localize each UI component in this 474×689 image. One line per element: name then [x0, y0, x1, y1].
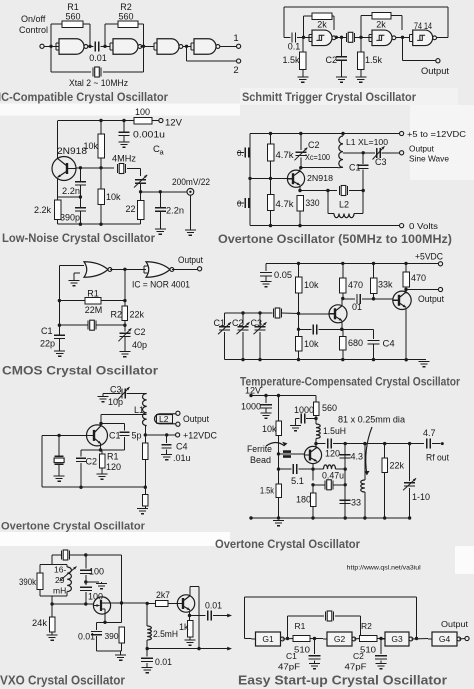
svg-text:0.47u: 0.47u — [322, 471, 344, 481]
svg-text:1k: 1k — [179, 622, 189, 632]
svg-text:Ferrite: Ferrite — [247, 444, 272, 454]
svg-text:R2: R2 — [110, 310, 122, 320]
svg-text:Output: Output — [421, 66, 450, 76]
svg-text:C2: C2 — [325, 55, 337, 65]
svg-text:R1: R1 — [107, 452, 119, 462]
svg-text:2.2n: 2.2n — [62, 186, 80, 196]
svg-text:29: 29 — [55, 575, 65, 585]
svg-text:C2: C2 — [308, 140, 320, 150]
svg-text:10k: 10k — [304, 339, 319, 349]
svg-text:L1: L1 — [134, 405, 144, 415]
svg-text:33k: 33k — [378, 280, 393, 290]
svg-text:4.3: 4.3 — [351, 452, 364, 462]
svg-text:VXO Crystal Oscillator: VXO Crystal Oscillator — [0, 674, 125, 688]
svg-text:330: 330 — [306, 198, 320, 208]
svg-text:47pF: 47pF — [278, 662, 300, 672]
svg-text:2: 2 — [233, 65, 238, 76]
svg-text:1-10: 1-10 — [412, 492, 430, 502]
svg-text:01: 01 — [352, 302, 362, 312]
svg-text:40p: 40p — [132, 340, 147, 350]
svg-text:mH: mH — [53, 586, 66, 596]
svg-text:5.1: 5.1 — [291, 476, 304, 486]
svg-text:16-: 16- — [54, 565, 66, 575]
svg-text:1000: 1000 — [241, 402, 261, 412]
svg-text:81 x 0.25mm dia: 81 x 0.25mm dia — [338, 415, 405, 425]
svg-text:120: 120 — [106, 462, 121, 472]
svg-text:4.7k: 4.7k — [276, 150, 295, 160]
svg-text:Output: Output — [178, 255, 203, 265]
svg-text:2.2n: 2.2n — [166, 206, 184, 216]
svg-text:G4: G4 — [439, 634, 451, 644]
svg-text:R2: R2 — [120, 2, 132, 12]
svg-text:Temperature-Compensated Crysta: Temperature-Compensated Crystal Oscillat… — [240, 377, 460, 389]
svg-text:0.: 0. — [237, 149, 244, 158]
svg-text:1.5uH: 1.5uH — [323, 426, 346, 436]
svg-text:390: 390 — [105, 631, 119, 641]
svg-text:4.7k: 4.7k — [276, 199, 295, 209]
svg-text:0.: 0. — [237, 200, 244, 209]
svg-text:0 Volts: 0 Volts — [409, 221, 438, 231]
svg-text:560: 560 — [322, 403, 337, 413]
svg-text:22k: 22k — [390, 461, 405, 471]
svg-text:4MHz: 4MHz — [112, 154, 136, 164]
svg-text:IC = NOR 4001: IC = NOR 4001 — [132, 280, 190, 290]
svg-text:Output: Output — [409, 144, 435, 154]
svg-text:Bead: Bead — [250, 455, 271, 465]
svg-text:R1: R1 — [295, 621, 306, 631]
svg-text:Control: Control — [19, 25, 48, 35]
svg-text:390p: 390p — [60, 213, 80, 223]
svg-text:100: 100 — [89, 567, 104, 577]
svg-text:Overtone Oscillator (50MHz to: Overtone Oscillator (50MHz to 100MHz) — [218, 232, 452, 246]
svg-text:R1: R1 — [67, 2, 79, 12]
svg-text:http://www.qsl.net/va3iul: http://www.qsl.net/va3iul — [347, 565, 421, 572]
svg-text:0.1: 0.1 — [288, 42, 301, 52]
svg-text:L1 XL=100: L1 XL=100 — [346, 137, 388, 147]
svg-text:180: 180 — [296, 495, 311, 505]
svg-text:10k: 10k — [304, 280, 319, 290]
svg-text:0.05: 0.05 — [274, 270, 292, 280]
svg-text:2N918: 2N918 — [57, 146, 87, 156]
svg-text:2k7: 2k7 — [156, 590, 170, 600]
svg-text:1.5k: 1.5k — [260, 486, 274, 496]
svg-text:G3: G3 — [391, 634, 403, 644]
svg-text:C2: C2 — [86, 457, 98, 467]
svg-text:L2: L2 — [159, 414, 169, 424]
svg-text:C2: C2 — [353, 651, 364, 661]
svg-text:C1: C1 — [109, 431, 121, 441]
svg-text:560: 560 — [118, 12, 133, 22]
svg-text:2N918: 2N918 — [307, 173, 333, 183]
svg-text:1.5k: 1.5k — [365, 55, 383, 65]
svg-text:Xc=100: Xc=100 — [305, 152, 330, 162]
svg-text:22: 22 — [125, 204, 135, 214]
svg-text:0.001u: 0.001u — [133, 130, 165, 140]
svg-text:1.5k: 1.5k — [282, 55, 300, 65]
svg-text:Overtone Crystal Oscillator: Overtone Crystal Oscillator — [215, 539, 361, 551]
svg-text:120: 120 — [325, 449, 340, 459]
svg-text:680: 680 — [348, 338, 363, 348]
svg-text:Overtone Crystal Oscillator: Overtone Crystal Oscillator — [1, 521, 146, 533]
svg-text:1000: 1000 — [294, 405, 314, 415]
svg-text:CMOS Crystal Oscillator: CMOS Crystal Oscillator — [2, 364, 158, 378]
svg-text:Output: Output — [183, 414, 209, 424]
svg-text:C3: C3 — [110, 385, 122, 395]
svg-text:470: 470 — [411, 273, 426, 283]
svg-text:2k: 2k — [317, 20, 327, 30]
svg-text:Output: Output — [441, 619, 469, 629]
svg-text:C1: C1 — [286, 651, 297, 661]
svg-text:12V: 12V — [245, 386, 261, 396]
svg-text:4.7: 4.7 — [423, 428, 436, 438]
svg-text:0.01: 0.01 — [155, 657, 172, 667]
svg-text:+12VDC: +12VDC — [183, 431, 217, 441]
svg-text:22p: 22p — [40, 339, 55, 349]
svg-text:33: 33 — [351, 498, 361, 508]
svg-text:0.01: 0.01 — [89, 53, 107, 63]
svg-text:470: 470 — [348, 280, 363, 290]
svg-text:24k: 24k — [32, 618, 48, 628]
svg-text:R2: R2 — [361, 621, 372, 631]
svg-text:R1: R1 — [87, 289, 99, 299]
svg-text:C1: C1 — [214, 318, 226, 328]
svg-text:Output: Output — [418, 294, 444, 304]
svg-text:12V: 12V — [165, 118, 183, 129]
svg-text:IC-Compatible Crystal Oscillat: IC-Compatible Crystal Oscillator — [0, 90, 168, 104]
svg-text:10p: 10p — [108, 397, 123, 407]
svg-text:On/off: On/off — [21, 14, 46, 24]
svg-text:C1: C1 — [349, 163, 361, 173]
svg-text:2.5mH: 2.5mH — [153, 629, 178, 639]
svg-text:5p: 5p — [132, 431, 142, 441]
svg-text:Rf out: Rf out — [426, 453, 449, 463]
svg-text:C1: C1 — [41, 326, 53, 336]
svg-text:2.2k: 2.2k — [34, 205, 52, 215]
svg-text:+5VDC: +5VDC — [415, 252, 443, 262]
svg-text:22M: 22M — [85, 305, 103, 315]
svg-text:C4: C4 — [176, 442, 188, 452]
svg-text:.01u: .01u — [173, 453, 191, 463]
svg-text:Schmitt Trigger Crystal Oscill: Schmitt Trigger Crystal Oscillator — [242, 90, 416, 104]
svg-text:Easy Start-up Crystal Oscillat: Easy Start-up Crystal Oscillator — [238, 674, 447, 688]
svg-text:2k: 2k — [376, 20, 386, 30]
svg-text:G2: G2 — [334, 634, 346, 644]
svg-text:G1: G1 — [262, 634, 274, 644]
svg-text:200mV/22: 200mV/22 — [172, 177, 210, 187]
svg-text:+5 to =12VDC: +5 to =12VDC — [407, 129, 466, 139]
svg-text:Sine Wave: Sine Wave — [409, 154, 449, 164]
svg-text:10k: 10k — [262, 424, 277, 434]
svg-text:10k: 10k — [106, 192, 121, 202]
svg-text:0.01: 0.01 — [78, 632, 95, 642]
svg-text:1: 1 — [233, 33, 238, 44]
svg-text:C3: C3 — [375, 157, 387, 167]
svg-text:C3: C3 — [251, 318, 263, 328]
svg-text:C2: C2 — [134, 327, 146, 337]
svg-text:47pF: 47pF — [345, 662, 367, 672]
svg-text:0.01: 0.01 — [205, 601, 222, 611]
svg-text:22k: 22k — [130, 310, 145, 320]
svg-text:Low-Noise Crystal Oscillator: Low-Noise Crystal Oscillator — [2, 231, 155, 245]
svg-text:100: 100 — [135, 107, 150, 117]
svg-text:560: 560 — [65, 12, 80, 22]
svg-text:Xtal 2 ~ 10MHz: Xtal 2 ~ 10MHz — [69, 78, 128, 88]
svg-text:C2: C2 — [232, 318, 244, 328]
svg-text:C4: C4 — [383, 339, 395, 350]
svg-text:390k: 390k — [19, 577, 36, 587]
svg-text:L2: L2 — [339, 200, 349, 210]
